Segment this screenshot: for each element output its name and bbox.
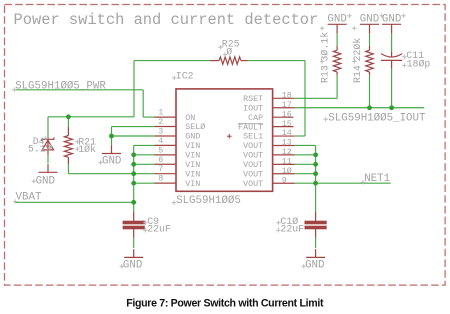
svg-text:3Ø.1k: 3Ø.1k	[320, 32, 331, 62]
svg-text:SLG59H1ØØ5_PWR: SLG59H1ØØ5_PWR	[15, 81, 106, 93]
svg-text:R13: R13	[320, 65, 331, 83]
svg-text:22uF: 22uF	[147, 223, 171, 234]
svg-text:GND: GND	[305, 259, 324, 271]
svg-text:VIN: VIN	[185, 179, 200, 189]
svg-text:GND: GND	[382, 14, 401, 26]
svg-text:1Øk: 1Øk	[78, 144, 96, 155]
svg-text:IC2: IC2	[176, 70, 194, 81]
svg-text:VOUT: VOUT	[243, 179, 263, 189]
svg-text:GND: GND	[360, 14, 379, 26]
svg-text:18Øp: 18Øp	[407, 59, 431, 70]
svg-text:GND: GND	[102, 156, 121, 168]
svg-text:VBAT: VBAT	[16, 192, 42, 204]
svg-text:SLG59H1ØØ5_IOUT: SLG59H1ØØ5_IOUT	[328, 112, 426, 124]
svg-text:22Øk: 22Øk	[352, 38, 363, 62]
svg-text:GND: GND	[36, 175, 55, 187]
svg-text:R14: R14	[352, 65, 363, 83]
svg-text:Figure 7: Power Switch with Cu: Figure 7: Power Switch with Current Limi…	[126, 298, 324, 310]
svg-text:8: 8	[158, 174, 163, 184]
svg-text:22uF: 22uF	[280, 223, 304, 234]
svg-text:5.1V: 5.1V	[28, 144, 52, 155]
svg-text:GND: GND	[123, 259, 142, 271]
svg-text:9: 9	[282, 175, 287, 185]
svg-text:Power switch and current detec: Power switch and current detector	[14, 11, 319, 29]
svg-text:GND: GND	[327, 14, 346, 26]
svg-text:Ø: Ø	[226, 46, 232, 57]
svg-text:SLG59H1ØØ5: SLG59H1ØØ5	[176, 195, 241, 207]
svg-text:NET1: NET1	[364, 173, 390, 185]
